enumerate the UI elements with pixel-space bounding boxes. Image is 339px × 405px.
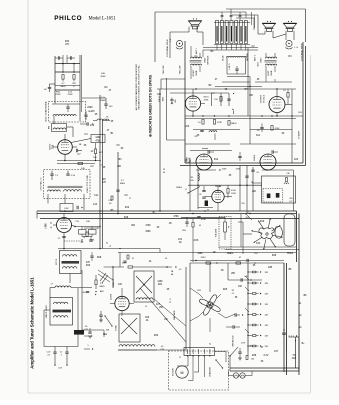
svg-text:R19: R19 [260, 221, 265, 223]
svg-text:BLU/: BLU/ [258, 61, 260, 66]
capacitor C4 right rail with label [84, 114, 87, 116]
svg-text:SEL: SEL [103, 334, 108, 336]
svg-text:470K: 470K [204, 99, 209, 101]
vertical wires center x190 [189, 160, 191, 211]
svg-text:220K: 220K [87, 107, 93, 109]
main bus line 2 [37, 213, 297, 215]
svg-text:1MEG: 1MEG [231, 123, 237, 125]
bus left bend [36, 211, 38, 219]
svg-text:C11: C11 [94, 195, 99, 197]
capacitor C2 antenna top [70, 56, 72, 59]
svg-text:470K: 470K [55, 94, 61, 96]
oscillator coil winding A [48, 190, 61, 192]
svg-text:CHNL: CHNL [271, 69, 273, 76]
vertical x253 detector [252, 167, 254, 211]
T1 lead wires [190, 53, 192, 57]
svg-text:455KC TOP CORE: 455KC TOP CORE [87, 175, 89, 193]
wafer switch SW1 big rotor lobe right [275, 226, 282, 238]
svg-text:220K: 220K [222, 169, 227, 171]
svg-text:455: 455 [175, 99, 177, 102]
svg-text:10: 10 [83, 237, 85, 239]
capacitor C1 antenna top [58, 56, 60, 59]
svg-text:2ND IF 455KC: 2ND IF 455KC [46, 304, 48, 318]
wafer switch SW2 contact stubs [199, 294, 203, 298]
capacitor C23 bottom-left [54, 347, 56, 353]
svg-text:120K: 120K [197, 253, 203, 255]
tube V3 12AV6 1st audio [196, 154, 212, 170]
phono jack J2 external spkr [286, 40, 292, 46]
dark component rect below 2nd IF [74, 330, 84, 335]
heater chain tap 2 [248, 282, 253, 284]
svg-text:R2: R2 [232, 290, 234, 292]
switch arm diagonal at detector [188, 187, 200, 194]
svg-text:6.3V: 6.3V [264, 355, 269, 357]
audio wire y82 right [255, 81, 292, 83]
svg-text:R30: R30 [154, 335, 159, 337]
changer connector pin 1 [187, 349, 189, 354]
tube V1 pin wires [64, 134, 66, 140]
speaker SP1 center channel [188, 21, 201, 25]
svg-text:35W4: 35W4 [287, 253, 294, 255]
svg-text:R36: R36 [272, 255, 277, 257]
tube V2 7B6 det-osc [57, 218, 72, 233]
svg-text:1C: 1C [91, 151, 94, 153]
1st IF secondary winding [63, 267, 77, 269]
svg-text:PHILCO: PHILCO [54, 15, 82, 22]
tone box B diagonals [121, 318, 137, 334]
wire y170 with arrow into V3 area [196, 169, 216, 171]
svg-text:MEG: MEG [61, 86, 66, 88]
switch diagonals pair avc [100, 273, 106, 281]
T2 lead wires [265, 53, 267, 57]
components row y280 [240, 278, 242, 281]
bus right verticals down [296, 211, 298, 262]
audio inner rail y150 [190, 150, 232, 152]
V3 right cap [238, 156, 241, 158]
svg-text:470K: 470K [173, 216, 179, 218]
svg-text:R34: R34 [65, 41, 70, 43]
dashed box - oscillator coil assembly [44, 170, 91, 199]
heater chain tap 1 [248, 271, 253, 273]
rf coil winding [53, 128, 66, 130]
capacitor at V1 plate [76, 149, 78, 152]
svg-text:EXTERNAL SPKR: EXTERNAL SPKR [166, 39, 169, 57]
short-wave coil lower right [97, 119, 109, 121]
svg-text:Amplifier and Tuner Schematic: Amplifier and Tuner Schematic Model L-16… [30, 277, 35, 369]
oscillator coil core lines [48, 187, 83, 189]
wire bottom-left horizontal y330 [82, 329, 104, 331]
arrow bent at x233 [233, 111, 235, 115]
output transformer T1 right chnl [191, 57, 202, 58]
resistor R1 ant [62, 75, 64, 80]
junction dots audio rails [192, 115, 193, 116]
svg-text:40MC: 40MC [100, 100, 106, 102]
resistor pair below loop [79, 230, 87, 235]
tube V7 12BA6 if amplifier [212, 190, 224, 202]
svg-text:R31: R31 [158, 284, 163, 286]
svg-text:MEG: MEG [120, 183, 125, 185]
svg-text:M: M [181, 371, 184, 375]
2nd IF outer frame bottom [44, 346, 78, 348]
wafer switch SW2 function switch petals [210, 295, 217, 304]
dashed drop below right bus component [286, 338, 288, 352]
tone box A [134, 271, 154, 302]
dark component rect left of V7 [205, 201, 208, 207]
audio inner rail y144 [185, 143, 230, 145]
wire rail right of antenna network (double) [79, 55, 81, 121]
caps on right columns [251, 169, 254, 171]
svg-text:470K: 470K [145, 225, 151, 227]
svg-text:120K: 120K [157, 281, 163, 283]
capacitor right of trimmer box with arrow [76, 206, 78, 209]
svg-text:C26: C26 [145, 317, 150, 319]
svg-text:120K: 120K [122, 263, 127, 265]
svg-text:TONE: TONE [115, 325, 117, 331]
tone box A diagonals [136, 276, 152, 293]
svg-text:14B6: 14B6 [46, 223, 48, 229]
svg-text:1ST IF: 1ST IF [56, 258, 58, 265]
V8 pin wires [121, 288, 123, 296]
horizontal rows y260-263 [190, 260, 284, 262]
svg-text:50V: 50V [298, 112, 302, 114]
tube V2 pin wires [63, 214, 65, 218]
vertical right of 3rd IF [292, 170, 294, 211]
tube V8 12AT6 2nd det [115, 296, 129, 310]
audio section outline right [302, 42, 304, 163]
svg-text:C37: C37 [274, 351, 279, 353]
connector pin 6 [240, 21, 243, 44]
wire from 3rd IF left [252, 182, 262, 184]
svg-text:47K: 47K [102, 182, 107, 184]
heater chain tap 7 [248, 335, 253, 337]
capacitor C3 left .05 [48, 87, 51, 89]
horizontal rows y247-249 [219, 246, 297, 248]
svg-text:RIGHT: RIGHT [193, 69, 195, 76]
oscillator trimmer capacitor 7.5 [50, 173, 53, 175]
left horizontal wire y252.5 [118, 252, 297, 254]
resistor at line entry [246, 356, 248, 360]
svg-text:BUILT IN ANTENNA: BUILT IN ANTENNA [44, 101, 47, 121]
svg-text:L.S.: L.S. [170, 38, 172, 42]
connector pin 3 [225, 21, 228, 44]
V7 pin wires [217, 187, 219, 191]
avc resistor 2.2MEG [95, 280, 97, 285]
vertical feed x118 [117, 152, 119, 214]
wire rf coil to tube [67, 126, 74, 128]
svg-text:1C0: 1C0 [90, 125, 95, 127]
wire above 3rd IF y170 [262, 169, 293, 171]
long diagonal linkage 2 [154, 299, 186, 326]
page right edge [310, 55, 312, 393]
tube V4 35C5 output [185, 96, 200, 111]
scattered component value labels [78, 46, 308, 363]
svg-text:C27: C27 [156, 304, 161, 306]
resistor 120K on feed with arrow [128, 266, 133, 268]
vertical from audio to bus x160 [159, 89, 161, 211]
resistor right of V7 [227, 189, 229, 194]
L AF 3 frame wires [226, 58, 228, 75]
tube V5 pin wires [276, 89, 278, 97]
small coil on x198 [198, 173, 199, 181]
svg-text:C30: C30 [286, 173, 289, 175]
svg-text:ANT 1: ANT 1 [195, 47, 198, 54]
svg-text:470K: 470K [275, 128, 280, 130]
wire tuner bus upper [57, 160, 101, 162]
1st IF core bar [62, 261, 80, 264]
svg-text:MEG: MEG [100, 286, 105, 288]
pilot lamp P2 [240, 373, 245, 378]
heater chain tap 6 [248, 324, 253, 326]
page bottom edge [28, 392, 311, 394]
svg-text:.05: .05 [199, 194, 202, 196]
svg-text:220K: 220K [231, 193, 236, 195]
phono jack J1 external spkr [176, 40, 182, 46]
svg-text:12AT6: 12AT6 [110, 293, 113, 300]
svg-text:LEFT: LEFT [268, 70, 270, 76]
audio section outline left [184, 41, 186, 163]
rf coil box L2 [52, 124, 67, 132]
tone box A coil [136, 298, 153, 300]
svg-text:PRI: PRI [48, 125, 50, 129]
vertical drop x250 audio [249, 77, 251, 145]
hatched coil block bottom [119, 345, 155, 347]
svg-text:6.8K: 6.8K [194, 240, 199, 242]
caps left of V7 [202, 190, 205, 192]
top rail wire 1 [155, 11, 246, 13]
capacitor inside L AF 3 frame [235, 68, 238, 70]
long diagonal linkage 1 [140, 288, 186, 342]
svg-text:TO: TO [292, 355, 295, 357]
component on right bus at y335 [282, 332, 286, 334]
audio inner rail y129 [193, 129, 240, 131]
svg-text:250: 250 [241, 203, 244, 205]
audio inner rail y88 [157, 88, 296, 90]
audio inner rail y93 [170, 92, 215, 94]
svg-text:⊕ INDICATES GREEN DOTS ON SPKR: ⊕ INDICATES GREEN DOTS ON SPKRS [149, 74, 153, 137]
diagonal wires into tone area [98, 270, 113, 280]
volume control resistor and tap [224, 222, 227, 232]
svg-text:12BA6 V2: 12BA6 V2 [112, 278, 115, 288]
wire right rail of tuner to L.O. [82, 97, 106, 99]
svg-text:YELLOW: YELLOW [163, 66, 165, 75]
speaker SP2 right channel a [262, 23, 275, 27]
svg-text:Model L-1651: Model L-1651 [89, 17, 117, 22]
svg-text:C14: C14 [93, 204, 98, 206]
svg-text:C20: C20 [185, 126, 190, 128]
page left edge [27, 0, 29, 393]
tube V1 7A8 converter [58, 140, 73, 155]
motor M1 circle [176, 366, 188, 378]
3rd IF dashed inner box [263, 189, 283, 203]
rounded wire loop right of SW1 [284, 214, 295, 246]
bus junction dots [64, 210, 66, 212]
svg-text:7A8: 7A8 [52, 144, 55, 149]
svg-text:R28: R28 [97, 257, 102, 259]
connector pin 5 [235, 21, 238, 44]
V5 resistor 1K [287, 93, 289, 98]
2nd IF secondary winding [54, 316, 68, 318]
connector pin 1 [216, 21, 219, 44]
svg-text:R12: R12 [125, 207, 130, 209]
svg-text:27 WATT: 27 WATT [298, 130, 301, 139]
svg-text:WHT/BLK: WHT/BLK [208, 55, 210, 65]
svg-text:BLUE: BLUE [223, 55, 225, 61]
V6 grid cap [271, 150, 273, 153]
svg-text:220K: 220K [67, 94, 73, 96]
vertical drop x292 audio [291, 89, 293, 163]
svg-text:AVC: AVC [100, 290, 105, 293]
svg-text:VOLUME: VOLUME [216, 228, 218, 237]
vertical x198 detector [197, 168, 199, 209]
audio section outline bottom double [185, 162, 303, 164]
wire from loop antenna down [53, 116, 55, 124]
avc wires and arrow [95, 275, 97, 280]
connector pin 7 [244, 21, 247, 44]
svg-text:47: 47 [132, 258, 134, 260]
svg-text:35C5: 35C5 [203, 97, 209, 99]
lamp wires [229, 375, 234, 377]
line cord double wires [230, 367, 299, 369]
loop antenna coil [53, 115, 76, 116]
wire bottom across to x186 [157, 349, 186, 351]
vertical wires center-bottom x186 x190 [185, 267, 187, 350]
line cord top bend [295, 340, 297, 341]
capacitor at line entry [238, 351, 241, 353]
svg-text:RED/: RED/ [205, 57, 207, 62]
wire under detector to bus [198, 207, 213, 209]
svg-text:INTERLOCK: INTERLOCK [233, 335, 235, 347]
svg-text:300K: 300K [100, 76, 106, 78]
3rd IF transformer box [262, 176, 296, 203]
wire antenna row y85 [55, 85, 80, 87]
top rail wire 3 [232, 14, 258, 16]
bus line 3 [40, 218, 299, 220]
svg-text:L AF 3: L AF 3 [228, 63, 231, 70]
svg-text:WATTAGE: WATTAGE [173, 310, 176, 320]
pilot lamp P1 [233, 373, 238, 378]
multi-pin connector block top and bottom plates [214, 22, 250, 24]
V3 grid cap and arrow [207, 150, 209, 153]
wire loop right of V2 [75, 226, 100, 228]
audio inner rail y116 double [185, 115, 303, 117]
2nd IF outer frame left [43, 310, 45, 347]
small comp on x118 feed [116, 189, 119, 191]
2nd IF transformer box [50, 298, 73, 326]
svg-text:1MEG: 1MEG [227, 253, 234, 255]
top rail wire 4 [236, 17, 254, 19]
vertical x120 to V8 feed [119, 253, 121, 268]
top rail wire 2 [226, 8, 306, 10]
svg-text:OUTPUT: OUTPUT [261, 94, 263, 103]
svg-text:R40: R40 [86, 265, 91, 267]
svg-text:10K: 10K [86, 221, 90, 223]
3rd IF coil right [284, 183, 289, 184]
1st IF transformer box [60, 251, 82, 274]
svg-text:YELLOW: YELLOW [180, 66, 182, 75]
audio choke L AF 3 coil [227, 56, 247, 57]
svg-text:INDICATED TO CHASSIS. LINE VOL: INDICATED TO CHASSIS. LINE VOLTS 117V AC… [138, 64, 141, 109]
svg-text:47K: 47K [86, 262, 91, 264]
wire IF1 down [69, 274, 71, 284]
wire antenna mid [55, 71, 80, 73]
main bus line 1 [37, 210, 297, 212]
tone box B [119, 314, 140, 342]
speaker SP2 SP3 connection wires [264, 31, 266, 34]
svg-text:CHNL: CHNL [196, 69, 198, 76]
resistor R2 ant [73, 75, 75, 80]
capacitor C24 bottom-left [66, 347, 68, 353]
vertical feed double x100 [99, 95, 101, 249]
switch contacts right of bus x246-258 [246, 214, 252, 220]
changer dashed box [169, 351, 229, 390]
svg-text:OSC: OSC [64, 208, 69, 210]
svg-text:B2: B2 [246, 212, 248, 214]
left horizontal wire y248.5 [58, 248, 160, 250]
svg-text:C5: C5 [232, 293, 234, 295]
svg-text:440C: 440C [163, 96, 165, 101]
connector top capacitors [221, 15, 224, 17]
svg-text:C21: C21 [256, 135, 261, 137]
SW2 left contact wires [190, 288, 199, 294]
wires below LAF3 [222, 81, 250, 83]
avc capacitor to ground [99, 314, 102, 316]
tube V6 12AV6 1st audio left [260, 154, 276, 170]
2nd IF outer frame right [77, 288, 79, 347]
V4 snubber network [212, 92, 230, 94]
svg-text:PIN: PIN [186, 158, 188, 162]
vertical x166 drop to y140 [166, 78, 168, 140]
svg-text:ANT: ANT [292, 357, 297, 360]
volume control dashed box [219, 217, 231, 250]
row below bus y217.7 [181, 217, 225, 219]
left bus components cluster y218-245 [84, 227, 98, 229]
changer connector strip [184, 348, 215, 356]
dashed box - built-in loop antenna [49, 102, 86, 123]
resistor 10K on bus [78, 162, 83, 164]
svg-text:V5 35C5: V5 35C5 [264, 94, 266, 103]
wire SW2 up to bus rows [209, 263, 211, 292]
grid resistor box right of V1 [91, 135, 105, 143]
changer connector pin 5 [209, 349, 211, 354]
svg-text:CONV: CONV [50, 143, 52, 150]
svg-text:L.S.: L.S. [295, 47, 299, 49]
arrows right of dark rect [84, 335, 89, 337]
changer connector pin 3 [198, 349, 200, 354]
output transformer T2 left chnl [266, 57, 277, 58]
on-off switch diagonal [229, 356, 231, 371]
changer aux switch [216, 360, 223, 368]
angle contacts on heater chain [245, 276, 249, 280]
wafer switch SW1 selector spokes [272, 235, 281, 237]
SW2 right cap and arrow [234, 313, 236, 316]
svg-text:35Z3: 35Z3 [201, 257, 207, 259]
wire from changer box to lamps [215, 351, 227, 353]
vertical x240 detector [239, 166, 241, 212]
loop antenna top wire [52, 103, 80, 105]
heater chain tap 8 [248, 345, 253, 347]
oscillator trimmer box [60, 204, 73, 212]
tube V4 pin wires [192, 89, 194, 96]
vertical x247 detector [246, 166, 248, 212]
vertical drop x248 audio [247, 48, 249, 117]
changer connector pin 4 [203, 349, 205, 354]
vertical drop x203 audio [202, 50, 204, 57]
components mid row y263 [236, 262, 241, 264]
svg-text:117V: 117V [241, 343, 246, 345]
speaker SP3 right channel b [283, 23, 296, 27]
svg-text:CHANGER: CHANGER [209, 366, 212, 377]
dashed wire below V2 [64, 240, 83, 242]
